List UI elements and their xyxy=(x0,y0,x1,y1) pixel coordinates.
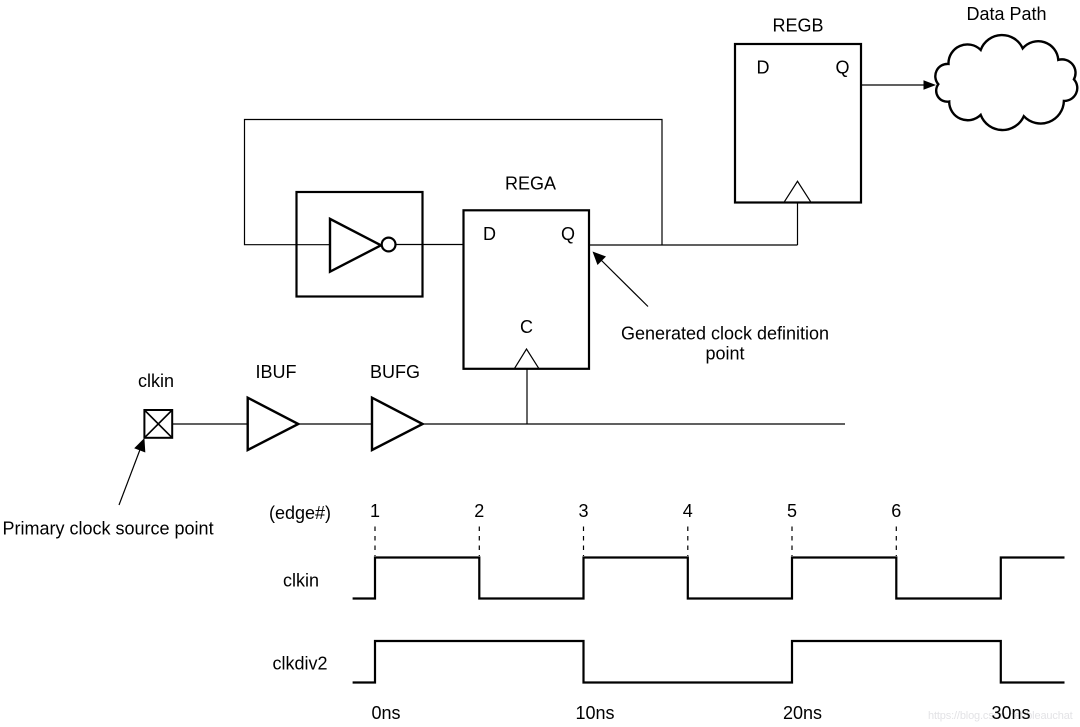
dashed edge marker 2 xyxy=(478,527,480,557)
svg-text:Q: Q xyxy=(561,224,575,244)
dashed edge marker 1 xyxy=(374,527,376,557)
annotation arrow: generated clock definition point xyxy=(598,257,648,307)
svg-text:Q: Q xyxy=(836,57,850,77)
svg-text:D: D xyxy=(757,57,770,77)
svg-text:4: 4 xyxy=(683,501,693,521)
svg-text:5: 5 xyxy=(787,501,797,521)
clock source pad (X box) xyxy=(144,410,172,438)
wire: clock line up to REGA C xyxy=(526,369,528,424)
wire: IBUF to BUFG xyxy=(298,423,372,425)
svg-text:10ns: 10ns xyxy=(575,703,614,723)
register REGB box xyxy=(735,44,861,203)
buffer BUFG triangle xyxy=(372,398,423,450)
register REGA box xyxy=(464,210,590,368)
svg-text:point: point xyxy=(705,344,744,364)
svg-text:clkin: clkin xyxy=(283,571,319,591)
svg-text:2: 2 xyxy=(474,501,484,521)
svg-text:3: 3 xyxy=(578,501,588,521)
inverter enclosure box xyxy=(297,192,423,297)
svg-text:0ns: 0ns xyxy=(371,703,400,723)
buffer IBUF triangle xyxy=(248,398,299,450)
annotation arrow: primary clock source point xyxy=(119,447,141,505)
svg-text:C: C xyxy=(520,317,533,337)
svg-text:BUFG: BUFG xyxy=(370,362,420,382)
dashed edge marker 6 xyxy=(895,527,897,557)
svg-text:20ns: 20ns xyxy=(783,703,822,723)
dashed edge marker 5 xyxy=(791,527,793,557)
svg-text:REGB: REGB xyxy=(772,16,823,36)
wire: inverter output to REGA D xyxy=(396,244,464,246)
wire: pad to IBUF xyxy=(172,423,247,425)
svg-text:Primary clock source point: Primary clock source point xyxy=(3,519,214,539)
svg-text:D: D xyxy=(483,224,496,244)
cloud: Data Path xyxy=(935,35,1077,130)
svg-text:Data Path: Data Path xyxy=(966,4,1046,24)
waveform clkin xyxy=(353,558,1065,599)
svg-text:30ns: 30ns xyxy=(991,703,1030,723)
dashed edge marker 4 xyxy=(687,527,689,557)
wire: clkdiv2 up to REGB clock xyxy=(797,203,799,245)
wire: BUFG output clock line xyxy=(423,423,845,425)
svg-text:6: 6 xyxy=(891,501,901,521)
svg-text:clkdiv2: clkdiv2 xyxy=(273,654,328,674)
REGA clock input triangle xyxy=(515,349,539,368)
svg-text:Generated clock definition: Generated clock definition xyxy=(621,323,829,343)
svg-text:REGA: REGA xyxy=(505,174,556,194)
inverter U1 bubble xyxy=(382,238,396,252)
REGB clock input triangle xyxy=(785,181,811,201)
svg-text:1: 1 xyxy=(370,501,380,521)
svg-text:clkin: clkin xyxy=(138,371,174,391)
inverter U1 triangle xyxy=(330,219,381,272)
svg-text:IBUF: IBUF xyxy=(255,362,296,382)
dashed edge marker 3 xyxy=(583,527,585,557)
svg-text:(edge#): (edge#) xyxy=(269,503,331,523)
wire: feedback loop from node clkdiv2 to inverter input xyxy=(245,120,663,246)
wire: REGB Q to Data Path with arrowhead xyxy=(862,84,925,86)
wire: REGA Q output (clkdiv2 net) xyxy=(589,244,798,246)
waveform clkdiv2 xyxy=(353,641,1065,683)
